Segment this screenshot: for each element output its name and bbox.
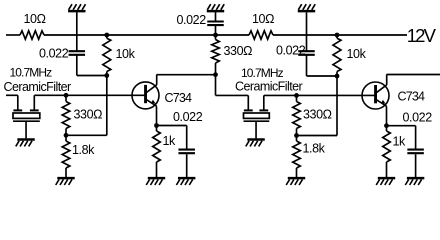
svg-text:330Ω: 330Ω: [74, 107, 103, 121]
wire node A1 down to bias row: [106, 76, 108, 136]
resistor R1 10&#937; body: [20, 31, 44, 39]
ceramic filter CF2 body: [244, 110, 270, 138]
ground under R10: [286, 178, 305, 185]
ceramic filter CF1 body: [13, 110, 40, 138]
capacitor C3 0.022: [207, 22, 224, 26]
wire supply rail left segment: [6, 34, 20, 36]
wire bias row to node B1: [66, 134, 107, 136]
wire CF2 pin 2 up: [263, 95, 265, 110]
junction Q2 emitter node: [384, 123, 389, 128]
label 12V supply: [407, 25, 437, 46]
wire ground to C4 crossing rail: [306, 12, 308, 50]
label CF2 10.7MHz: [241, 66, 284, 80]
wire emitter to C2: [157, 125, 187, 127]
label R10 value 1.8k: [303, 142, 326, 156]
junction rail R8 tap: [335, 33, 340, 38]
node B2 junction: [294, 133, 299, 138]
capacitor C1 0.022: [69, 51, 86, 55]
svg-text:1.8k: 1.8k: [303, 142, 326, 156]
node B1 junction: [64, 133, 69, 138]
svg-text:0.022: 0.022: [403, 111, 433, 125]
wire Q2 collector output to edge: [387, 74, 440, 76]
resistor R7 330&#937; body: [212, 35, 220, 75]
ground chassis under CF1: [16, 140, 35, 147]
ground under C5: [405, 178, 424, 185]
label R4 value 330&#937;: [74, 107, 103, 121]
label C4 value 0.022: [276, 44, 306, 58]
wire CF2 pin 1 down: [247, 95, 249, 110]
resistor R9 330&#937; body: [293, 95, 301, 135]
ground chassis under CF2: [246, 140, 265, 147]
label CF2 CeramicFilter: [235, 79, 303, 93]
svg-text:10k: 10k: [347, 47, 367, 61]
junction rail R3 tap: [104, 33, 109, 38]
label R8 value 10k: [347, 47, 367, 61]
wire C2 top: [186, 126, 188, 150]
resistor R10 1.8k body: [293, 136, 301, 178]
label R5 value 1.8k: [72, 143, 95, 157]
label C2 value 0.022: [173, 110, 203, 124]
wire Q2 emitter down: [386, 107, 388, 126]
wire C1 to node A1: [77, 75, 107, 77]
wire bias row to node B2: [297, 135, 338, 137]
label R6 value 1k: [163, 134, 177, 148]
wire C4 bottom down: [306, 56, 308, 77]
node A2 junction: [335, 74, 340, 79]
junction rail bypass node: [213, 33, 218, 38]
wire ground to C3: [215, 12, 217, 21]
wire node A2 down to bias row: [336, 76, 338, 136]
label C5 value 0.022: [403, 111, 433, 125]
svg-text:1k: 1k: [393, 134, 407, 148]
wire ground to C1 crossing rail: [76, 12, 78, 50]
svg-text:0.022: 0.022: [173, 110, 203, 124]
label R2 value 10&#937;: [252, 12, 274, 26]
svg-text:0.022: 0.022: [177, 13, 207, 27]
wire supply rail right segment to 12V: [273, 34, 407, 36]
label Q1 C734: [165, 91, 193, 105]
transistor Q1 C734: [132, 82, 159, 109]
label R3 value 10k: [116, 47, 136, 61]
svg-text:10Ω: 10Ω: [252, 12, 274, 26]
wire C5 top: [415, 126, 417, 150]
svg-text:12V: 12V: [407, 25, 437, 46]
wire Q1 collector up: [156, 75, 158, 85]
svg-text:10Ω: 10Ω: [24, 12, 46, 26]
resistor R11 1k body: [383, 126, 391, 177]
svg-text:CeramicFilter: CeramicFilter: [235, 79, 303, 93]
ground chassis top-right: [298, 4, 315, 11]
resistor R5 1.8k body: [62, 135, 70, 177]
node A1 junction: [104, 73, 109, 78]
ground under R5: [56, 178, 75, 185]
svg-text:330Ω: 330Ω: [224, 44, 253, 58]
resistor R8 10k body: [333, 35, 341, 76]
svg-text:CeramicFilter: CeramicFilter: [4, 80, 72, 94]
capacitor C2 0.022: [178, 150, 195, 154]
ground under R11: [376, 178, 395, 185]
resistor R2 10&#937; body: [249, 31, 273, 39]
resistor R4 330&#937; body: [62, 95, 70, 135]
wire emitter to C5: [387, 125, 416, 127]
resistor R3 10k body: [103, 35, 111, 76]
capacitor C4 0.022: [298, 51, 315, 55]
wire C1 bottom down: [76, 56, 78, 76]
svg-text:0.022: 0.022: [39, 46, 69, 60]
wire Q2 collector up: [386, 75, 388, 86]
ground chassis top-left: [68, 4, 85, 11]
svg-text:10k: 10k: [116, 47, 136, 61]
wire C2 bottom: [186, 154, 188, 177]
svg-text:10.7MHz: 10.7MHz: [241, 66, 284, 80]
svg-text:C734: C734: [398, 90, 426, 104]
svg-text:0.022: 0.022: [276, 44, 306, 58]
label R1 value 10&#937;: [24, 12, 46, 26]
svg-text:10.7MHz: 10.7MHz: [10, 65, 53, 79]
wire to CF2 pin 1: [216, 94, 249, 96]
junction base bias tap 1: [64, 93, 69, 98]
wire Q1 collector to load node: [157, 74, 216, 76]
junction Q1 collector node: [213, 72, 218, 77]
label CF1 CeramicFilter: [4, 80, 72, 94]
resistor R6 1k body: [153, 126, 161, 178]
wire base 1: [34, 94, 145, 96]
svg-text:1k: 1k: [163, 134, 177, 148]
wire collector node down: [215, 75, 217, 96]
svg-text:330Ω: 330Ω: [303, 107, 332, 121]
transistor Q2 C734: [362, 82, 389, 109]
wire input left: [6, 94, 18, 96]
label R11 value 1k: [393, 134, 407, 148]
wire supply rail middle segment: [44, 34, 249, 36]
wire C3 to rail: [215, 26, 217, 35]
wire filter pin 2 up: [33, 95, 35, 110]
label R9 value 330&#937;: [303, 107, 332, 121]
capacitor C5 0.022: [407, 150, 424, 154]
wire base 2: [264, 94, 375, 96]
label Q2 C734: [398, 90, 426, 104]
label C1 value 0.022: [39, 46, 69, 60]
svg-text:1.8k: 1.8k: [72, 143, 95, 157]
label R7 value 330&#937;: [224, 44, 253, 58]
ground under R6: [146, 178, 165, 185]
label CF1 10.7MHz: [10, 65, 53, 79]
ground chassis top-middle: [207, 4, 224, 11]
svg-text:C734: C734: [165, 91, 193, 105]
wire input down to filter pin 1: [17, 95, 19, 110]
label C3 value 0.022: [177, 13, 207, 27]
wire Q1 emitter down: [156, 106, 158, 125]
wire C5 bottom: [415, 154, 417, 177]
junction base bias tap 2: [294, 93, 299, 98]
wire C4 to node A2: [307, 75, 338, 77]
junction Q1 emitter node: [154, 123, 159, 128]
ground under C2: [176, 178, 195, 185]
